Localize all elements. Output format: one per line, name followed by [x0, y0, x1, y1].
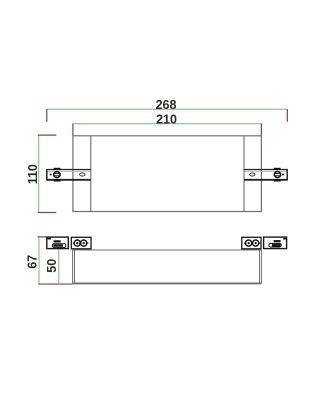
left flange slot hole: [80, 173, 85, 176]
side view body left outer edge: [72, 250, 74, 283]
side view left screw bar: [54, 240, 61, 242]
right bracket band top edge: [244, 169, 287, 171]
side view left slot outline: [52, 244, 66, 248]
right flange slot hole: [250, 173, 255, 176]
right screw flange lower bar: [274, 180, 281, 182]
side view right slot fill: [272, 244, 281, 246]
side view body right inner edge: [259, 250, 261, 283]
side view left bracket: [47, 237, 69, 249]
left screw slot upper line: [53, 172, 61, 174]
side view body left inner edge: [74, 250, 76, 283]
side view body top edge: [73, 249, 262, 251]
right bracket pilot dot: [282, 174, 284, 176]
side view right slot outline: [269, 244, 281, 248]
left screw slot lower line: [53, 175, 61, 177]
left bracket band highlight line: [47, 170, 90, 172]
right screw slot upper line: [274, 172, 282, 174]
left bracket pilot dot: [50, 174, 52, 176]
dimension line 268 (top): [47, 108, 287, 110]
tick left of 210: [72, 124, 74, 136]
side view left terminal block: [71, 237, 91, 249]
svg-text:210: 210: [156, 113, 177, 127]
side view right screw bar: [274, 240, 281, 242]
left screw flange upper bar: [54, 168, 61, 170]
tick left of 268: [46, 109, 48, 122]
tick top of 67: [38, 236, 48, 238]
right bracket outer edge: [286, 169, 288, 181]
side view right bracket: [264, 237, 287, 249]
side view right terminal block: [242, 237, 261, 249]
left terminal screw 1: [74, 240, 80, 246]
top view left flange inner edge: [90, 136, 92, 212]
side view left bracket notch: [48, 238, 51, 240]
side view left slot fill: [53, 244, 63, 246]
right screw head: [274, 172, 280, 178]
shared bottom extension line: [38, 283, 72, 285]
right bracket band bottom edge: [244, 179, 287, 181]
left bracket band top edge: [47, 169, 91, 171]
side view body bottom edge: [73, 282, 262, 284]
svg-text:67: 67: [25, 255, 39, 269]
right terminal screw 2: [253, 240, 259, 246]
dimension line 110 (left, vertical): [38, 135, 40, 212]
svg-text:50: 50: [45, 259, 59, 273]
right bracket band highlight line: [244, 170, 286, 172]
tick right of 210: [260, 124, 262, 136]
left bracket outer edge: [46, 169, 48, 181]
dimension line 67 (vertical): [38, 237, 40, 284]
left screw flange lower bar: [54, 180, 61, 182]
tick top of 110: [38, 134, 57, 136]
top view right flange inner edge: [243, 136, 245, 212]
right terminal screw 1: [246, 240, 252, 246]
tick right of 268: [286, 109, 288, 122]
right screw flange upper bar: [274, 168, 281, 170]
side view body right outer edge: [260, 250, 262, 283]
left screw head: [54, 172, 60, 178]
dimension line 210: [73, 123, 262, 125]
left terminal screw 2: [81, 240, 87, 246]
left bracket band bottom edge: [47, 179, 91, 181]
side view right bracket notch: [283, 238, 286, 240]
top view body outline: [73, 136, 262, 212]
tick bottom of 110: [38, 212, 57, 214]
dimension line 50 (vertical): [58, 249, 60, 285]
right screw slot lower line: [274, 175, 282, 177]
svg-text:110: 110: [26, 164, 40, 184]
svg-text:268: 268: [156, 98, 177, 112]
